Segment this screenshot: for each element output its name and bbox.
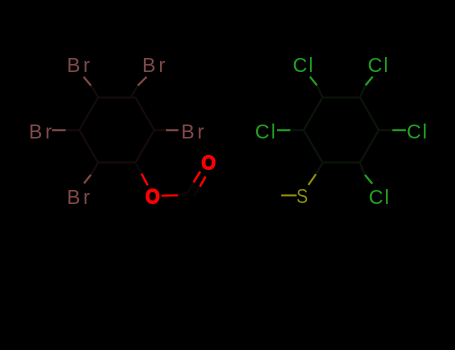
svg-text:Br: Br	[29, 121, 55, 143]
svg-text:Br: Br	[142, 55, 168, 77]
svg-text:Cl: Cl	[255, 121, 277, 143]
svg-text:Cl: Cl	[369, 187, 391, 209]
svg-text:Cl: Cl	[293, 55, 315, 77]
svg-text:O: O	[201, 152, 215, 175]
svg-text:O: O	[145, 185, 159, 208]
svg-text:Cl: Cl	[407, 121, 429, 143]
svg-text:S: S	[296, 185, 308, 207]
svg-text:Br: Br	[181, 121, 207, 143]
svg-text:Cl: Cl	[368, 55, 390, 77]
svg-text:Br: Br	[67, 55, 93, 77]
svg-text:Br: Br	[67, 187, 93, 209]
